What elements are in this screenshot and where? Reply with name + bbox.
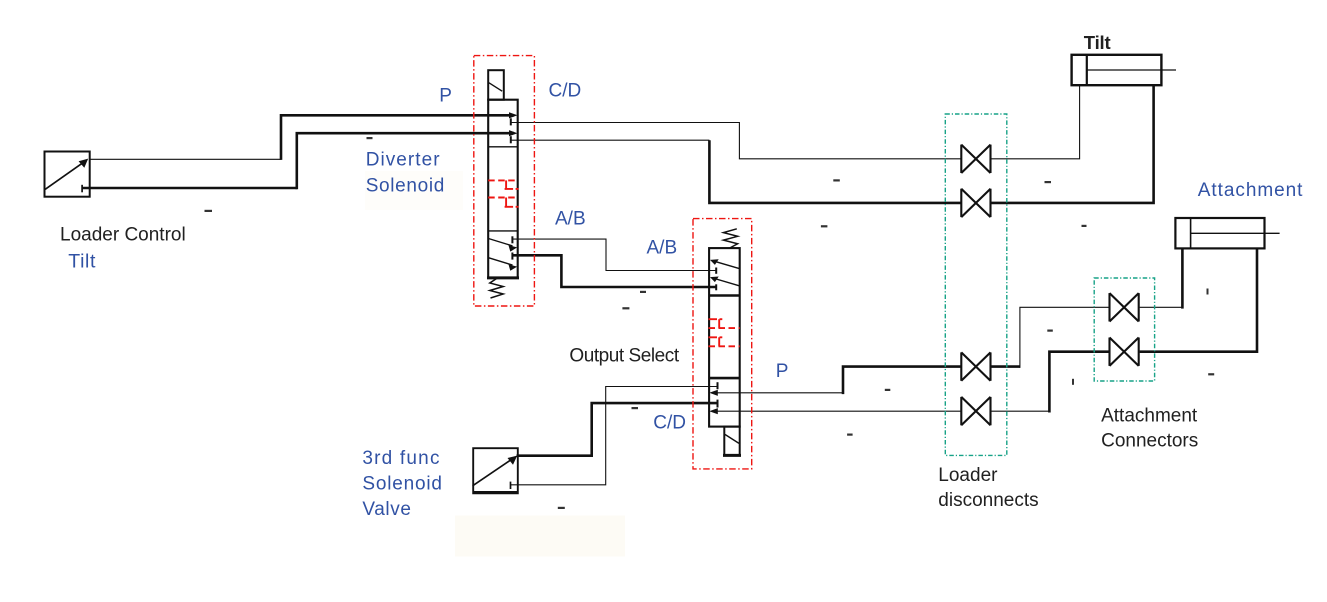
svg-text:Diverter: Diverter [366,150,441,171]
svg-text:Tilt: Tilt [1084,32,1111,53]
svg-text:P: P [439,86,452,107]
svg-text:P: P [776,361,789,382]
svg-text:Solenoid: Solenoid [362,474,442,495]
svg-text:Valve: Valve [362,499,411,520]
svg-text:A/B: A/B [555,209,586,230]
svg-text:Tilt: Tilt [68,250,96,272]
svg-text:C/D: C/D [653,413,686,434]
svg-text:Loader: Loader [938,465,998,486]
svg-text:C/D: C/D [549,81,582,102]
svg-text:3rd func: 3rd func [362,448,440,469]
svg-text:A/B: A/B [647,237,678,258]
svg-text:disconnects: disconnects [938,490,1038,511]
svg-text:Attachment: Attachment [1198,180,1304,201]
svg-text:Solenoid: Solenoid [366,175,445,196]
svg-text:Loader Control: Loader Control [60,225,186,246]
svg-text:Attachment: Attachment [1101,406,1198,427]
svg-text:Connectors: Connectors [1101,431,1198,452]
svg-text:Output Select: Output Select [569,346,679,367]
